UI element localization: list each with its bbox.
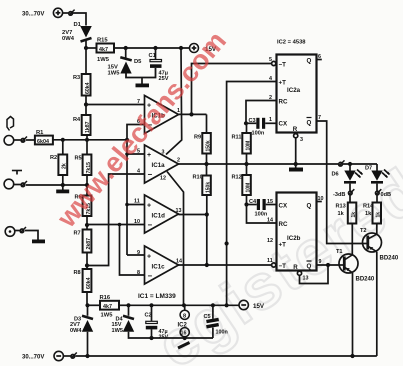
node +T bus to -15V rail — [225, 303, 229, 307]
svg-text:R1: R1 — [36, 130, 44, 136]
wire +15V rail — [114, 47, 189, 49]
node T1 base / reset loop — [326, 263, 330, 267]
svg-text:0W4: 0W4 — [70, 328, 82, 334]
node D4 — [126, 303, 130, 307]
svg-text:Q: Q — [307, 120, 312, 127]
svg-text:R10: R10 — [193, 175, 203, 181]
ground symbol input 3 — [32, 240, 45, 244]
resistor R16 4k7 1W5 — [88, 295, 129, 319]
svg-text:IC2 = 4538: IC2 = 4538 — [277, 40, 306, 46]
svg-text:C3: C3 — [249, 118, 256, 124]
svg-text:30...70V: 30...70V — [22, 355, 44, 361]
wire P3 branch to IC1c inverting input — [120, 225, 145, 276]
svg-text:3: 3 — [300, 137, 303, 143]
node IC1d out — [205, 212, 209, 216]
wire R6 to node P3 — [86, 216, 88, 230]
connector on input 2 — [14, 181, 27, 187]
wire R3 to node P1 — [85, 96, 87, 116]
wire node to R15 — [86, 47, 97, 49]
node X — [204, 162, 208, 166]
wire R10 to comparator outputs — [206, 195, 208, 265]
-15V rail wire — [129, 304, 240, 306]
node R2 tap — [61, 138, 65, 142]
svg-text:C2: C2 — [145, 313, 152, 319]
op-amp IC1d — [145, 195, 179, 233]
wire R7 to node P4 — [86, 253, 88, 270]
wire IC1c output to IC2b -T — [179, 264, 272, 266]
svg-text:R13: R13 — [336, 204, 346, 210]
svg-text:Q: Q — [307, 263, 312, 270]
svg-text:+T: +T — [279, 241, 287, 248]
svg-text:−T: −T — [279, 263, 287, 270]
resistor R3 60k4 — [73, 74, 91, 96]
wire rail to D3 — [87, 332, 89, 356]
LED D7 — [365, 164, 390, 191]
connector (plug symbol) on +supply lead — [63, 10, 75, 16]
capacitor C1 47u 25V — [149, 48, 169, 82]
svg-text:-3dB: -3dB — [333, 192, 345, 198]
svg-text:IC2a: IC2a — [287, 87, 301, 94]
capacitor C2 47u 25V — [145, 305, 169, 340]
node IC1b out / -T feed — [189, 112, 193, 116]
svg-text:+T: +T — [279, 79, 287, 86]
pin 12 label and V- stub — [160, 172, 184, 306]
svg-text:D5: D5 — [134, 59, 142, 65]
svg-text:C1: C1 — [149, 53, 157, 59]
wire T1 emitter to negative rail — [352, 273, 354, 356]
svg-text:RC: RC — [279, 221, 288, 228]
svg-text:2k87: 2k87 — [86, 238, 92, 250]
ground rail (0V) bottom — [129, 332, 214, 338]
input 3 terminal — [5, 227, 15, 237]
svg-text:D6: D6 — [332, 172, 339, 178]
ground symbol under D5/C1 — [136, 78, 150, 88]
svg-text:150k: 150k — [206, 140, 212, 151]
svg-text:8: 8 — [183, 313, 186, 319]
resistor R10 150k — [193, 164, 212, 195]
resistor R13 1k — [336, 203, 358, 224]
node D6 anode — [348, 162, 352, 166]
svg-text:150k: 150k — [206, 182, 212, 193]
inversion bubble IC2a -T (pin 5) — [272, 61, 276, 65]
zener D3 2V7 0W4 — [70, 316, 93, 334]
svg-text:100n: 100n — [255, 212, 268, 218]
node IC2a reset — [294, 162, 298, 166]
node C5 top — [211, 303, 215, 307]
svg-text:60k4: 60k4 — [86, 277, 92, 289]
wire R13 to T1 collector — [351, 224, 353, 255]
svg-text:16: 16 — [181, 331, 187, 337]
svg-text:13: 13 — [176, 208, 182, 214]
node T1 emitter rail — [350, 354, 354, 358]
wire tap to R13 — [349, 195, 351, 202]
resistor R5 7k15 — [75, 155, 93, 176]
node D3 bottom — [85, 354, 89, 358]
svg-text:R: R — [293, 126, 298, 133]
svg-text:−: − — [148, 221, 153, 230]
wire IC2b RC loop — [247, 205, 277, 224]
wire LED anode line — [343, 163, 377, 165]
svg-text:+: + — [147, 152, 151, 159]
wire R5 to gnd node — [86, 175, 88, 196]
svg-text:25V: 25V — [159, 335, 169, 341]
wire P1 to IC1b+ — [86, 104, 145, 106]
wire D1 to node — [85, 40, 87, 49]
ground symbol under R2 — [56, 185, 69, 193]
pin 6 label and Q stub — [317, 54, 322, 60]
svg-text:IC1d: IC1d — [152, 213, 166, 220]
wire up to IC2a -T — [192, 64, 272, 115]
resistor R8 60k4 — [74, 269, 93, 292]
svg-text:IC1 = LM339: IC1 = LM339 — [138, 293, 176, 300]
svg-text:7: 7 — [137, 99, 140, 105]
svg-text:5: 5 — [269, 57, 272, 63]
svg-text:IC1a: IC1a — [152, 162, 166, 169]
node R2 bottom — [61, 183, 65, 187]
svg-text:R9: R9 — [194, 135, 201, 141]
capacitor C5 100n — [204, 305, 228, 338]
svg-text:9: 9 — [319, 259, 322, 265]
svg-text:R5: R5 — [75, 156, 82, 162]
svg-text:1k: 1k — [376, 212, 382, 218]
wire input1 to connector — [14, 139, 21, 141]
negative rail wire — [76, 355, 377, 357]
svg-text:0W4: 0W4 — [62, 36, 75, 42]
svg-text:9: 9 — [137, 250, 140, 256]
resistor R4 1k87 — [73, 115, 91, 135]
svg-text:BD240: BD240 — [380, 256, 399, 262]
resistor R7 2k87 — [74, 230, 93, 253]
svg-text:12: 12 — [160, 176, 166, 182]
IC2 supply pin 8 circle — [180, 305, 189, 319]
wire IC2b Q-bar to T1 base — [317, 264, 340, 266]
node junction D1/R15/R3 — [84, 46, 88, 50]
op-amp IC1c — [145, 246, 179, 284]
inversion bubble IC2b -T (pin 11) — [272, 263, 276, 267]
svg-text:RC: RC — [279, 98, 288, 105]
svg-text:BD240: BD240 — [356, 277, 375, 283]
wire bus end to IC1c + — [127, 254, 145, 256]
node P4 — [85, 263, 89, 267]
wire bus to IC1b inverting input — [127, 125, 145, 140]
node P3 branch — [118, 223, 122, 227]
negative supply terminal 30..70V — [22, 351, 63, 360]
svg-text:0dB: 0dB — [381, 192, 392, 198]
svg-text:T1: T1 — [336, 249, 343, 255]
svg-text:−: − — [148, 272, 153, 281]
svg-text:14: 14 — [267, 218, 273, 224]
svg-text:2k: 2k — [62, 163, 68, 169]
resistor R15 4k7 1W5 — [97, 38, 115, 64]
resistor R2 — [50, 140, 68, 185]
zener D5 15V 1W5 — [108, 57, 143, 76]
signal wire R1 to bus — [53, 139, 127, 141]
svg-text:C4: C4 — [249, 199, 257, 205]
zener D4 15V 1W5 — [112, 305, 135, 334]
monostable IC2b (4538) — [277, 193, 317, 272]
node ladder/gnd — [85, 183, 89, 187]
node -15V left — [85, 303, 89, 307]
svg-text:15V: 15V — [253, 303, 265, 310]
svg-text:D1: D1 — [74, 22, 82, 28]
svg-text:12: 12 — [267, 238, 273, 244]
reset bubble IC2a (pin 3) — [294, 134, 303, 143]
connector on LED supply line — [339, 160, 345, 166]
svg-text:100n: 100n — [252, 131, 265, 137]
svg-text:−: − — [148, 170, 153, 179]
svg-text:R8: R8 — [74, 270, 81, 276]
resistor R1 6k04 — [35, 130, 53, 145]
svg-text:www.elecfans.com: www.elecfans.com — [50, 25, 232, 233]
zener D1 2V7 0W4 — [62, 22, 92, 42]
svg-text:T2: T2 — [360, 228, 367, 234]
node P1 (IC1b+ tap) — [84, 102, 88, 106]
svg-text:6k04: 6k04 — [37, 139, 49, 145]
svg-text:1W5: 1W5 — [101, 313, 114, 319]
svg-text:1k: 1k — [351, 212, 357, 218]
capacitor C4 100n — [247, 199, 277, 218]
wire tap to R14 — [376, 195, 378, 202]
node signal bus — [125, 138, 129, 142]
node C1 tap — [153, 46, 157, 50]
wire IC2a Q-bar to T2 base — [317, 121, 363, 244]
wire IC1b output — [179, 113, 207, 115]
LED D6 — [332, 164, 363, 191]
resistor R9 150k — [194, 133, 212, 154]
svg-text:1k: 1k — [365, 211, 372, 217]
svg-text:R4: R4 — [73, 117, 81, 123]
wire R14 to T2 collector — [376, 224, 378, 235]
node ladder tap — [85, 138, 89, 142]
capacitor C3 100n — [246, 118, 277, 137]
svg-text:R15: R15 — [97, 38, 108, 44]
op-amp IC1a — [145, 145, 179, 183]
node R11/R12 — [244, 162, 248, 166]
input 2 terminal — [4, 179, 14, 189]
wire R4 to signal node — [86, 135, 88, 155]
wire IC2a reset to reference line — [295, 138, 297, 164]
IC2 supply pin 16 circle — [180, 328, 189, 338]
resistor R14 1k — [363, 203, 382, 224]
earth mark below ground rail — [178, 343, 190, 349]
svg-text:4k7: 4k7 — [103, 304, 112, 310]
svg-text:R11: R11 — [232, 135, 242, 141]
svg-text:10: 10 — [134, 219, 140, 225]
wire signal bus vertical — [126, 140, 128, 255]
monostable IC2a (4538) — [277, 55, 317, 134]
resistor R11 10M — [232, 123, 252, 164]
node IC2 pin16 bottom — [183, 336, 187, 340]
svg-text:1: 1 — [269, 117, 272, 123]
svg-text:100n: 100n — [216, 330, 228, 336]
node bus tap d — [125, 203, 129, 207]
wire D5 anode to gnd bar — [126, 68, 156, 78]
wire from supply to D1 — [73, 13, 86, 26]
svg-text:1k: 1k — [338, 211, 345, 217]
svg-text:C5: C5 — [204, 314, 211, 320]
svg-text:30...70V: 30...70V — [22, 12, 44, 18]
wire P3 to IC1d inverting input — [87, 224, 145, 226]
resistor R6 7k15 — [75, 195, 93, 217]
wire input3 to ground — [25, 231, 38, 240]
wire into D5 — [125, 48, 127, 58]
svg-text:R3: R3 — [73, 75, 80, 81]
connector on input 3 — [15, 227, 26, 233]
svg-text:11: 11 — [267, 258, 273, 264]
node C4/R12 — [244, 202, 248, 206]
node D5 tap — [124, 46, 128, 50]
svg-text:14: 14 — [176, 259, 182, 265]
wire P4 to IC1a inverting input — [87, 174, 145, 266]
svg-text:10M: 10M — [246, 183, 252, 193]
pin 3 label and V+ stub — [162, 48, 182, 156]
svg-text:11: 11 — [134, 199, 140, 205]
svg-text:Q: Q — [307, 203, 312, 210]
svg-text:+: + — [147, 203, 151, 210]
connector -3dB tap — [333, 189, 354, 198]
svg-text:4k7: 4k7 — [99, 47, 108, 53]
svg-text:R2: R2 — [50, 155, 57, 161]
terminal +15V — [190, 44, 217, 54]
svg-text:7: 7 — [318, 115, 321, 121]
reset bubble IC2b (pin 13) — [297, 271, 308, 281]
svg-text:1k87: 1k87 — [85, 121, 91, 133]
node bus tap a — [125, 152, 129, 156]
svg-text:1W5: 1W5 — [97, 57, 110, 63]
connector on -supply lead — [63, 353, 76, 359]
svg-text:10: 10 — [318, 196, 324, 202]
svg-text:Q: Q — [307, 58, 312, 65]
ground symbol on reference line — [289, 164, 303, 172]
wire input2 / ground line — [26, 184, 87, 186]
resistor R12 10M — [232, 164, 252, 205]
node IC2 pin8 / LM339 pin12 — [182, 303, 186, 307]
wire connector to R1 — [26, 139, 35, 141]
node P3 — [85, 223, 89, 227]
connector on input 1 — [21, 137, 27, 143]
connector 0dB tap — [376, 189, 392, 198]
svg-text:R12: R12 — [232, 175, 242, 181]
node IC1c out — [205, 263, 209, 267]
op-amp IC1b — [145, 96, 179, 134]
wire IC1b out to R9 — [206, 114, 208, 133]
svg-text:CX: CX — [279, 202, 288, 209]
supply terminal + 30..70V — [22, 8, 63, 17]
input 2 shield icon — [12, 171, 22, 175]
node +T IC2b tap — [225, 241, 229, 245]
terminal -15V — [239, 300, 265, 310]
svg-text:1W5: 1W5 — [108, 71, 121, 77]
wire R8 to -15V node — [86, 292, 88, 305]
wire IC1d output — [179, 214, 207, 216]
wire bus tap to IC1d + — [127, 204, 145, 206]
node C3/R11 — [244, 121, 248, 125]
svg-text:15: 15 — [267, 199, 273, 205]
wire +T bus — [227, 82, 277, 306]
input 1 plug icon — [7, 117, 14, 131]
wire bus tap to IC1a + — [127, 153, 145, 155]
svg-text:1W5: 1W5 — [112, 328, 124, 334]
input 1 terminal — [4, 136, 14, 146]
svg-text:2: 2 — [177, 158, 180, 164]
pin 10 label and Q stub — [317, 196, 324, 202]
node LM339 pin3 feed tap — [179, 46, 183, 50]
wire IC2a RC loop — [246, 101, 277, 124]
reference/ground line (IC1a out) — [179, 163, 339, 165]
node C2 bottom — [149, 336, 153, 340]
svg-text:13: 13 — [303, 276, 309, 282]
svg-text:R16: R16 — [100, 295, 111, 301]
svg-text:IC1c: IC1c — [152, 264, 166, 271]
svg-text:−T: −T — [279, 61, 287, 68]
transistor T1 BD240 — [336, 249, 375, 283]
wire R9 to node X — [206, 154, 208, 165]
svg-text:D7: D7 — [365, 166, 372, 172]
node C2 top — [149, 303, 153, 307]
wire IC2b reset loop to Q-bar line — [300, 265, 329, 284]
ladder: wire node to R3 — [85, 48, 87, 74]
transistor T2 BD240 — [360, 228, 399, 262]
wire D3 to -15V node — [87, 305, 89, 316]
svg-text:IC2b: IC2b — [287, 235, 301, 242]
svg-text:8: 8 — [137, 270, 140, 276]
svg-text:10M: 10M — [246, 141, 252, 151]
svg-text:4: 4 — [137, 169, 140, 175]
svg-text:CX: CX — [279, 120, 288, 127]
svg-text:60k4: 60k4 — [85, 82, 91, 94]
wire T2 emitter to negative rail corner — [376, 252, 378, 356]
svg-text:R: R — [293, 264, 298, 271]
svg-text:+: + — [147, 254, 151, 261]
svg-text:3: 3 — [162, 150, 165, 156]
svg-text:6: 6 — [318, 54, 321, 60]
